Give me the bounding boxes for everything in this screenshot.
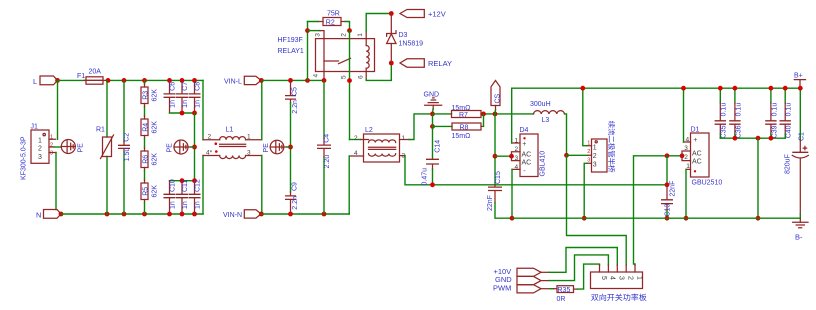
junction CS tap [493,112,498,117]
svg-text:2.2n: 2.2n [292,196,299,210]
svg-text:5: 5 [600,276,607,280]
svg-text:1: 1 [515,137,519,144]
wire +10V to power board pin3 [541,248,617,273]
resistor R35 0R [554,286,578,303]
capacitor C9 2.2n [285,182,299,214]
wire N rail left section [61,213,203,215]
svg-text:C14: C14 [435,140,442,153]
svg-text:1n: 1n [195,100,202,108]
relay RELAY1 HF193F [278,31,375,81]
svg-text:62K: 62K [152,153,159,166]
svg-text:C5: C5 [291,87,298,96]
junction C39 bottom [769,136,774,141]
svg-text:22nF: 22nF [487,195,494,211]
svg-text:1n: 1n [170,201,177,209]
varistor R1 [96,80,114,214]
junction C7 bottom [180,111,185,116]
capacitor C1 820uF [784,88,808,218]
junction D4 minus at rail [510,216,515,221]
capacitor C13 22nF [661,181,677,219]
junction C36 bottom [733,136,738,141]
junction PE3 [288,145,293,150]
svg-text:VIN-N: VIN-N [223,212,242,219]
svg-text:75R: 75R [327,11,340,18]
wire connector pin3 to minus rail [584,163,587,218]
svg-text:AC: AC [522,151,532,158]
junction relay feed [305,78,310,83]
port VIN-L [224,76,261,85]
svg-text:0.1u: 0.1u [786,103,793,117]
svg-text:300uH: 300uH [530,101,551,108]
capacitor C6 1n [164,80,177,113]
svg-text:PE: PE [167,143,174,153]
junction VIN-L [259,78,264,83]
wire node B down to power board [567,155,627,265]
wire L2 pin4 to N rail [348,156,350,214]
svg-text:2: 2 [627,276,634,280]
svg-text:820uF: 820uF [784,154,791,174]
junction R8 corner [481,112,486,117]
svg-text:AC: AC [522,160,532,167]
wire AC tie to D4 [495,155,512,157]
port L [33,76,58,86]
inductor L3 300uH [530,101,565,124]
svg-text:R3: R3 [142,91,149,100]
svg-text:15mΩ: 15mΩ [452,133,471,140]
svg-text:R35: R35 [558,287,571,294]
svg-text:B+: B+ [794,73,803,80]
svg-text:0.1u: 0.1u [735,103,742,117]
svg-text:5: 5 [340,75,347,79]
svg-text:2: 2 [593,153,597,160]
diode D3 1N5819 [387,14,424,64]
svg-text:AC: AC [692,150,702,157]
port RELAY [400,59,452,68]
capacitor C10 1n [164,179,177,214]
svg-text:N: N [36,211,41,220]
resistor R5 62K [141,180,159,214]
svg-text:C35: C35 [721,125,728,138]
svg-text:VIN-L: VIN-L [224,78,242,85]
svg-text:GBL410: GBL410 [539,151,546,177]
port B- ground [793,218,808,241]
junction C2 bottom [122,212,127,217]
svg-text:2: 2 [340,33,347,37]
svg-text:C15: C15 [495,171,502,184]
junction C39 top [769,86,774,91]
svg-text:2: 2 [684,154,688,161]
wire relay pin2/5 column [349,31,351,140]
capacitor C15 22nF [487,171,512,218]
capacitor C39 0.1u [765,88,778,138]
resistor R4 62K [141,116,159,148]
svg-text:R5: R5 [142,187,149,196]
junction D1 minus at rail [684,216,689,221]
svg-text:2: 2 [515,146,519,153]
svg-text:+: + [693,137,697,144]
junction C4 top [322,78,327,83]
svg-text:3: 3 [247,150,251,157]
wire top rail left section [107,79,203,81]
svg-text:R2: R2 [326,19,335,26]
wire C5 to C9 with PE3 tap [290,103,292,192]
svg-text:D3: D3 [399,32,408,39]
port VIN-N [223,210,261,219]
wire C13 tap [666,156,668,185]
svg-text:20A: 20A [89,69,102,76]
junction C4 bottom [322,212,327,217]
junction L-port [55,78,60,83]
svg-text:3: 3 [38,154,42,161]
wire J1 pin2 to PE1 [54,146,61,148]
junction D3 cathode [389,11,394,16]
junction C10 bottom [167,212,172,217]
svg-text:0.1u: 0.1u [721,103,728,117]
junction C12 bottom [192,212,197,217]
inductor L1 common mode choke [203,127,262,159]
junction caps minus rail [756,216,761,221]
svg-text:3: 3 [587,157,590,163]
junction D4 AC pins [509,154,514,159]
svg-text:2: 2 [354,135,358,142]
capacitor C7 1n [176,80,189,113]
svg-text:3: 3 [684,145,688,152]
svg-text:1: 1 [635,276,642,280]
capacitor C5 2.2n [285,80,299,113]
svg-text:R8: R8 [460,125,469,132]
wire to relay pin3 [308,30,321,32]
junction GND-R7 [430,112,435,117]
port GND2 [495,275,541,285]
wire J1 pin3 down to N [55,153,57,210]
junction AC tie [493,154,498,159]
wire caps bus down to minus rail [757,138,759,218]
wire N rail corner to L1 pin4 [202,156,204,215]
connector J1 KF300-5.0-3P [21,124,57,181]
svg-text:RELAY: RELAY [428,59,452,68]
earth PE1 [61,140,84,154]
fuse F1 20A [77,69,107,85]
connector freewheel diode board [587,121,615,172]
wire D1 AC feed [634,156,683,265]
junction C13 top [665,153,670,158]
wire L port down to J1 pin1 [57,80,59,139]
svg-text:4: 4 [515,164,519,171]
svg-text:PE: PE [263,143,270,153]
junction fuse-R1 [106,78,111,83]
junction C11 top [180,178,185,183]
junction N-port [59,212,64,217]
svg-text:C4: C4 [323,134,330,143]
junction pin3 minus rail [582,216,587,221]
junction B+ freewheel [580,86,585,91]
svg-text:3: 3 [618,276,625,280]
svg-text:0.1u: 0.1u [771,103,778,117]
svg-text:F1: F1 [77,73,85,80]
junction R5 bottom [142,212,147,217]
wire R35 to power board pin5 [578,264,600,289]
svg-text:PE: PE [77,143,84,153]
resistor R6 62K [141,148,159,180]
svg-text:R4: R4 [142,123,149,132]
svg-text:0.47u: 0.47u [421,168,428,186]
wire L2 pin3 to mid rail [405,156,667,185]
svg-text:2.2u: 2.2u [324,155,331,169]
svg-text:3: 3 [515,155,519,162]
svg-text:+12V: +12V [428,10,446,19]
wire L1 pin1 up to VIN-L rail [261,80,263,139]
wire R7 to L3 [486,113,534,115]
svg-text:C8: C8 [195,82,202,91]
svg-text:RELAY1: RELAY1 [278,48,304,55]
junction C13 mid [665,182,670,187]
junction C9 bottom [288,212,293,217]
capacitor C8 1n [189,80,202,113]
wire top rail VIN-L section [261,79,324,81]
junction C7 top [180,78,185,83]
svg-text:1: 1 [247,134,251,141]
svg-text:3: 3 [593,161,597,168]
svg-text:1: 1 [357,33,364,37]
resistor R2 75R [308,11,350,31]
junction D1 plus at bus [681,86,686,91]
wire B+ bus [512,87,801,89]
svg-text:62K: 62K [152,185,159,198]
port B+ [794,73,806,89]
svg-text:C40: C40 [786,125,793,138]
port CS [491,81,501,114]
wire L2 pin1 to GND node [409,114,433,140]
wire L to fuse [58,79,87,81]
capacitor C14 0.47u [421,126,441,185]
wire PWM to R35 [541,288,554,290]
svg-text:22nF: 22nF [670,181,677,197]
bridge rectifier D1 GBU2510 [682,88,722,218]
wire node B to connector pin2 [567,154,589,156]
svg-text:1: 1 [593,144,597,151]
svg-text:4: 4 [354,150,358,157]
svg-text:KF300-5.0-3P: KF300-5.0-3P [21,136,28,180]
svg-text:L1: L1 [226,127,234,134]
junction node B [564,153,569,158]
earth PE3 [263,140,291,154]
svg-text:1n: 1n [182,100,189,108]
svg-text:+: + [522,141,526,148]
svg-text:L: L [33,77,37,86]
svg-text:1n: 1n [195,201,202,209]
capacitor C12 1n [189,179,202,214]
svg-text:1n: 1n [170,100,177,108]
svg-text:AC: AC [692,159,702,166]
svg-text:1: 1 [402,135,406,142]
wire GND to power board pin4 [541,255,608,281]
svg-text:D1: D1 [691,126,700,133]
junction C8 top [192,78,197,83]
svg-text:GBU2510: GBU2510 [692,180,723,187]
junction C35 top [718,86,723,91]
svg-text:C10: C10 [170,179,177,192]
resistor R3 62K [141,80,159,116]
wire relay pin1 to +12V [366,14,391,32]
svg-text:4: 4 [313,74,320,78]
svg-text:1n: 1n [182,201,189,209]
svg-text:GND: GND [424,92,440,99]
svg-text:R7: R7 [459,112,468,119]
capacitor C36 0.1u [729,88,742,138]
wire relay pin5 to L2 pin2 [350,139,361,141]
wire GND column [432,114,434,127]
capacitor C4 2.2u [317,80,331,214]
wire L3 to node B [565,114,567,155]
svg-text:4*: 4* [206,150,213,157]
transformer L2 [349,127,409,162]
junction C11 bottom [180,212,185,217]
junction C2 top [122,78,127,83]
svg-text:HF193F: HF193F [278,37,303,44]
svg-text:2: 2 [208,134,212,141]
junction GND-R8 [430,124,435,129]
capacitor C2 1.5u [118,80,131,214]
earth PE2 [167,140,195,154]
svg-text:PWM: PWM [493,284,511,293]
svg-text:4: 4 [609,276,616,280]
svg-text:62K: 62K [152,89,159,102]
svg-text:B-: B- [795,233,803,242]
junction relay pin5 [347,78,352,83]
port N [36,210,61,220]
wire CS column to AC node [494,114,496,185]
svg-text:62K: 62K [152,121,159,134]
svg-text:C13: C13 [665,204,672,217]
wire L1 pin3 down to VIN-N rail [261,156,263,215]
svg-text:C11: C11 [182,180,189,192]
svg-text:6: 6 [358,75,365,79]
svg-text:L3: L3 [542,117,550,124]
junction C40 top [783,86,788,91]
connector power board [591,265,647,301]
svg-text:0R: 0R [557,296,566,303]
svg-text:CS: CS [494,93,501,103]
wire R2 left down to rail [307,22,309,81]
ground GND [424,92,442,114]
junction D3 anode [389,61,394,66]
wire relay pin6 to RELAY node [366,63,391,80]
junction PE2 [192,145,197,150]
junction B+ corner [798,86,803,91]
wire rail corner to L1 pin2 [202,80,204,139]
junction R1 bottom [105,212,110,217]
svg-text:2: 2 [38,146,42,153]
svg-text:1N5819: 1N5819 [399,41,424,48]
svg-text:C2: C2 [123,133,130,142]
svg-text:2.2n: 2.2n [292,100,299,114]
capacitor C11 1n [176,180,189,214]
wire 0.1u caps bottom bus [720,137,785,139]
svg-text:R6: R6 [142,155,149,164]
wire PE column [194,113,196,181]
junction D1 AC pins [680,153,685,158]
junction C8 bottom [192,111,197,116]
svg-text:1: 1 [686,163,690,170]
svg-text:C12: C12 [195,179,202,192]
wire C10-C12 tops [170,180,195,182]
junction C14 bottom [430,182,435,187]
port PWM [493,284,541,293]
junction C36 top [733,86,738,91]
resistor R8 15mOhm [433,114,484,140]
svg-text:C9: C9 [291,182,298,191]
svg-text:L2: L2 [365,127,373,134]
junction caps to minus [756,136,761,141]
junction R2 right [347,28,352,33]
junction C6 top [167,78,172,83]
wire C6-C8 bottoms [170,112,195,114]
svg-text:2: 2 [587,149,590,155]
port +12V [400,10,446,19]
svg-text:D4: D4 [520,127,529,134]
svg-text:4: 4 [686,136,690,143]
junction VIN-N [259,212,264,217]
svg-text:1: 1 [38,137,42,144]
svg-text:C6: C6 [170,82,177,91]
svg-text:3: 3 [50,151,53,157]
junction C13 bottom [665,216,670,221]
resistor R7 15mOhm [433,105,487,119]
wire minus rail [512,217,800,219]
svg-text:R1: R1 [96,127,105,134]
svg-text:1.5u: 1.5u [124,148,131,162]
capacitor C40 0.1u [780,88,793,138]
svg-text:C7: C7 [182,82,189,91]
wire N rail VIN-N section [261,213,349,215]
port +10V [494,267,542,277]
junction R3 top [142,78,147,83]
wire connector pin1 to B+ [583,88,587,146]
junction C5 top [288,78,293,83]
svg-text:C1: C1 [798,132,805,141]
bridge rectifier D4 GBL410 [512,88,547,218]
capacitor C35 0.1u [715,88,728,138]
junction R2 left [305,28,310,33]
junction C12 top [192,178,197,183]
svg-text:3: 3 [315,33,322,37]
